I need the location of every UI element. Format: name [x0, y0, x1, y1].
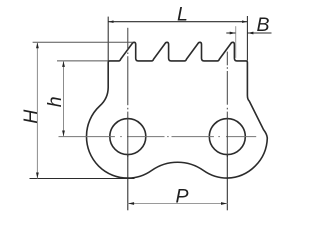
- plate outline: [86, 42, 267, 178]
- P extension left: [127, 155, 129, 211]
- svg-text:L: L: [177, 3, 188, 25]
- hole right: [209, 119, 245, 155]
- L dimension line: [108, 21, 247, 23]
- P dimension line: [128, 203, 228, 205]
- svg-text:h: h: [44, 96, 66, 107]
- centerline vertical right: [226, 52, 228, 157]
- P arrow left: [128, 202, 134, 205]
- L arrow right: [242, 20, 247, 23]
- B dimension line right part: [247, 32, 271, 34]
- centerline vertical left: [127, 28, 129, 157]
- L extension left: [107, 17, 109, 61]
- H dimension line: [36, 42, 38, 178]
- svg-text:P: P: [176, 186, 189, 208]
- H extension top: [33, 41, 133, 43]
- B arrow right part: [248, 32, 254, 35]
- h extension top: [57, 60, 108, 62]
- P arrow right: [221, 202, 227, 205]
- L arrow left: [109, 20, 114, 23]
- H arrow bottom: [36, 173, 39, 179]
- centerline horizontal: [59, 136, 257, 138]
- P extension right: [226, 155, 228, 211]
- B arrow left part: [230, 32, 236, 35]
- L extension right: [246, 16, 248, 61]
- H arrow top: [36, 43, 39, 49]
- H extension bottom: [30, 178, 135, 180]
- B dimension line left part: [226, 32, 235, 34]
- h arrow bottom: [62, 131, 65, 137]
- hole left: [110, 119, 146, 155]
- B extension grey: [235, 26, 237, 58]
- svg-text:B: B: [257, 14, 270, 36]
- svg-text:H: H: [20, 109, 42, 124]
- h arrow top: [62, 61, 65, 67]
- h dimension line: [63, 61, 65, 137]
